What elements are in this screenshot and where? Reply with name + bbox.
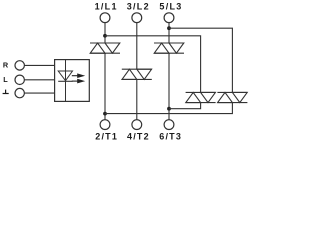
wire T1 vertical bottom <box>104 53 106 119</box>
node T1 branch <box>103 112 107 116</box>
wire T2 vertical bottom <box>136 79 138 119</box>
wire L to control box <box>25 79 55 81</box>
LED D1 cathode bar <box>58 80 72 82</box>
terminal 1/L1 <box>100 13 110 23</box>
svg-text:L: L <box>3 75 8 84</box>
wire L3 vertical top <box>168 23 170 43</box>
node T3 branch <box>167 107 171 111</box>
triac V1 (L1-T1) <box>90 43 120 53</box>
wire T3 vertical bottom <box>168 53 170 119</box>
terminal 6/T3 <box>164 120 174 130</box>
terminal ground <box>15 88 24 97</box>
wire L2 vertical top <box>136 23 138 69</box>
svg-text:2/T1: 2/T1 <box>95 131 118 141</box>
triac V2 (L2-T2) <box>122 69 152 79</box>
label 5/L3 <box>159 2 182 12</box>
triac V5 (reverse L3-T1) <box>217 92 247 102</box>
label L <box>3 75 8 84</box>
wire T3 to triac V4 <box>169 103 201 109</box>
LED D1 vertical lead <box>65 60 67 102</box>
wire T1 to triac V5 <box>105 103 232 114</box>
svg-text:R: R <box>3 60 9 69</box>
label 2/T1 <box>95 131 118 141</box>
svg-text:1/L1: 1/L1 <box>95 2 118 12</box>
node L1 branch <box>103 34 107 38</box>
wire L3 to reverse triac V5 <box>169 28 232 92</box>
control box U1 <box>55 60 90 102</box>
label R <box>3 60 9 69</box>
label ground (up tack) <box>3 90 9 94</box>
terminal 5/L3 <box>164 13 174 23</box>
label 3/L2 <box>127 2 150 12</box>
triac V4 (reverse L1-T3) <box>186 92 216 102</box>
terminal L <box>15 75 24 84</box>
svg-text:5/L3: 5/L3 <box>159 2 182 12</box>
terminal 2/T1 <box>100 120 110 130</box>
svg-text:4/T2: 4/T2 <box>127 131 150 141</box>
wire R to control box <box>25 64 55 66</box>
wire L1 to reverse triac V4 <box>105 36 201 93</box>
LED D1 triangle <box>58 71 72 81</box>
wire L1 vertical top <box>104 23 106 43</box>
terminal 3/L2 <box>132 13 142 23</box>
emission arrow lower <box>72 79 85 84</box>
svg-text:6/T3: 6/T3 <box>159 131 182 141</box>
terminal R <box>15 61 24 70</box>
emission arrow upper <box>72 73 85 78</box>
label 6/T3 <box>159 131 182 141</box>
terminal 4/T2 <box>132 120 142 130</box>
svg-text:3/L2: 3/L2 <box>127 2 150 12</box>
node L3 branch <box>167 26 171 30</box>
label 4/T2 <box>127 131 150 141</box>
label 1/L1 <box>95 2 118 12</box>
wire ground to control box <box>25 92 55 94</box>
triac V3 (L3-T3) <box>154 43 184 53</box>
